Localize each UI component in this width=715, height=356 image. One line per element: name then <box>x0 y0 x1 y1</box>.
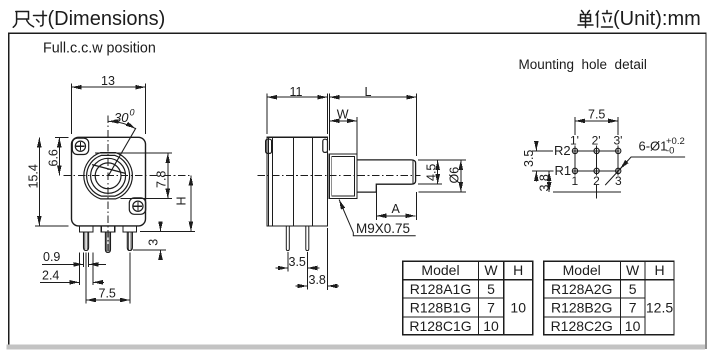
clip tab top-right <box>323 139 328 152</box>
svg-text:7: 7 <box>629 300 637 316</box>
table 1 text <box>409 262 526 334</box>
knob bezel outer profile <box>84 153 133 199</box>
hole 2 <box>594 168 599 173</box>
title right: 单位(Unit):mm <box>578 8 701 30</box>
hole 2' <box>594 148 599 153</box>
bushing inner <box>332 157 355 197</box>
svg-text:M9X0.75: M9X0.75 <box>356 221 410 236</box>
bushing outer <box>329 154 357 199</box>
svg-text:Mounting hole detail: Mounting hole detail <box>519 57 647 72</box>
svg-text:5: 5 <box>629 281 637 297</box>
body side outline <box>267 137 328 226</box>
svg-text:0.9: 0.9 <box>43 250 60 264</box>
svg-text:10: 10 <box>625 318 641 334</box>
svg-text:W: W <box>626 262 640 278</box>
svg-text:1: 1 <box>572 174 579 188</box>
svg-text:W: W <box>337 108 349 122</box>
svg-text:R128A2G: R128A2G <box>551 281 612 297</box>
hole 3 <box>616 168 621 173</box>
body front outline <box>72 137 146 226</box>
svg-text:Model: Model <box>563 262 601 278</box>
svg-text:7.5: 7.5 <box>588 107 605 121</box>
glyph 寸 <box>34 11 47 26</box>
column line 1 <box>574 146 576 176</box>
dim 3.5 holes <box>535 141 537 151</box>
table 1 grid <box>403 261 533 334</box>
dim 7.5 bottom <box>86 253 130 304</box>
column line 2 <box>596 146 598 199</box>
svg-text:3.8: 3.8 <box>538 174 552 191</box>
svg-text:13: 13 <box>101 74 115 88</box>
svg-text:2: 2 <box>593 174 600 188</box>
dim 11 <box>267 94 328 135</box>
svg-text:R1: R1 <box>555 163 572 178</box>
svg-text:11: 11 <box>290 85 303 99</box>
pin right <box>127 232 132 251</box>
svg-text:R128C2G: R128C2G <box>551 318 613 334</box>
svg-text:5: 5 <box>487 281 495 297</box>
leader 6-dia1 <box>605 157 685 185</box>
svg-text:4.5: 4.5 <box>425 164 439 181</box>
svg-text:2': 2' <box>592 134 601 148</box>
shaft end circle <box>95 163 121 189</box>
hole 3' <box>616 148 621 153</box>
clip tab top-left <box>266 139 272 153</box>
pin stub middle <box>101 226 115 232</box>
svg-text:6-Ø1: 6-Ø1 <box>639 139 668 154</box>
row centerline R2 <box>532 150 620 152</box>
table 2 text <box>551 262 674 334</box>
dim dia 6 <box>419 160 467 192</box>
dim A <box>376 187 416 221</box>
svg-text:7: 7 <box>487 300 495 316</box>
svg-text:H: H <box>654 262 664 278</box>
dim 2.4 <box>40 253 104 286</box>
dim 3.8 side <box>296 228 340 290</box>
svg-text:2.4: 2.4 <box>42 269 59 283</box>
dim 13 <box>72 84 146 135</box>
svg-text:10: 10 <box>510 300 526 316</box>
title left: 尺寸(Dimensions) <box>13 8 165 30</box>
svg-text:0: 0 <box>130 108 135 118</box>
hole 1' <box>572 148 577 153</box>
svg-text:10: 10 <box>483 318 499 334</box>
dim 3.8 holes <box>548 171 550 192</box>
dim 15.4 <box>35 137 69 226</box>
dim W <box>330 117 358 156</box>
centerline horizontal front <box>64 174 192 176</box>
svg-text:30: 30 <box>114 110 129 125</box>
screw S2 <box>133 201 143 211</box>
dim 0.9 <box>42 253 106 268</box>
dim 3 right <box>133 222 166 260</box>
shaft tip chamfer line <box>412 160 414 184</box>
svg-text:R2: R2 <box>554 143 571 158</box>
shaft outline <box>357 160 416 192</box>
row centerline R1 <box>532 170 620 172</box>
svg-text:(Unit):mm: (Unit):mm <box>613 8 701 30</box>
body lamination line a <box>269 137 273 226</box>
svg-text:1': 1' <box>570 134 579 148</box>
dim H <box>140 175 195 231</box>
dim 7.8 <box>95 153 172 199</box>
body lamination line c <box>312 137 314 226</box>
screw pad top-left <box>72 138 88 154</box>
screw S1 <box>75 141 85 151</box>
svg-text:W: W <box>484 262 498 278</box>
pin left <box>84 232 89 251</box>
dim 6.6 <box>55 137 69 175</box>
svg-text:A: A <box>392 202 401 216</box>
slot chord line <box>92 165 125 174</box>
svg-text:R128B1G: R128B1G <box>410 300 471 316</box>
centerline vertical front <box>107 116 109 253</box>
svg-text:3: 3 <box>146 239 160 246</box>
svg-text:3.5: 3.5 <box>289 255 306 269</box>
dim 3.5 side <box>276 252 320 290</box>
glyph 位 <box>596 11 613 28</box>
svg-text:3: 3 <box>615 174 622 188</box>
glyph 单 <box>578 11 593 28</box>
glyph 尺 <box>13 12 33 28</box>
pin stub left <box>79 226 93 232</box>
svg-text:3': 3' <box>614 134 623 148</box>
svg-text:-0: -0 <box>666 146 674 157</box>
svg-text:Full.c.c.w position: Full.c.c.w position <box>43 41 156 57</box>
table 2 grid <box>544 261 674 334</box>
svg-text:Ø6: Ø6 <box>448 167 462 184</box>
column line 3 <box>617 146 619 176</box>
svg-text:R128B2G: R128B2G <box>551 300 612 316</box>
dim 7.5 holes <box>575 117 618 135</box>
knob middle circle <box>91 158 126 193</box>
svg-text:R128A1G: R128A1G <box>410 281 471 297</box>
leader M9X0.75 <box>339 200 416 236</box>
dim 4.5 <box>418 160 466 184</box>
svg-text:15.4: 15.4 <box>26 164 40 188</box>
svg-text:R128C1G: R128C1G <box>409 318 471 334</box>
bottom ref line <box>553 191 621 193</box>
hole 1 <box>572 168 577 173</box>
knob bezel inner profile <box>87 155 130 196</box>
svg-text:H: H <box>513 262 523 278</box>
pin side 1 <box>286 226 289 251</box>
svg-text:7.8: 7.8 <box>155 171 169 188</box>
svg-text:(Dimensions): (Dimensions) <box>48 8 166 30</box>
svg-text:12.5: 12.5 <box>646 300 673 316</box>
pin stub right <box>123 226 137 232</box>
centerline horizontal side <box>258 174 421 176</box>
svg-text:H: H <box>175 196 189 205</box>
dim L <box>330 94 417 157</box>
30 degree pointer line <box>108 128 136 176</box>
body lamination line b <box>292 137 294 226</box>
pin middle <box>105 232 110 253</box>
svg-text:7.5: 7.5 <box>99 286 116 300</box>
svg-text:L: L <box>365 85 372 99</box>
screw pad bottom-right <box>129 198 145 214</box>
svg-text:Model: Model <box>421 262 459 278</box>
svg-text:3.5: 3.5 <box>522 150 536 167</box>
svg-text:6.6: 6.6 <box>47 149 61 166</box>
dim 30 deg arc <box>108 121 135 128</box>
pin side 2 <box>306 226 309 251</box>
frame bottom gray bar <box>7 344 706 349</box>
svg-text:3.8: 3.8 <box>309 273 326 287</box>
